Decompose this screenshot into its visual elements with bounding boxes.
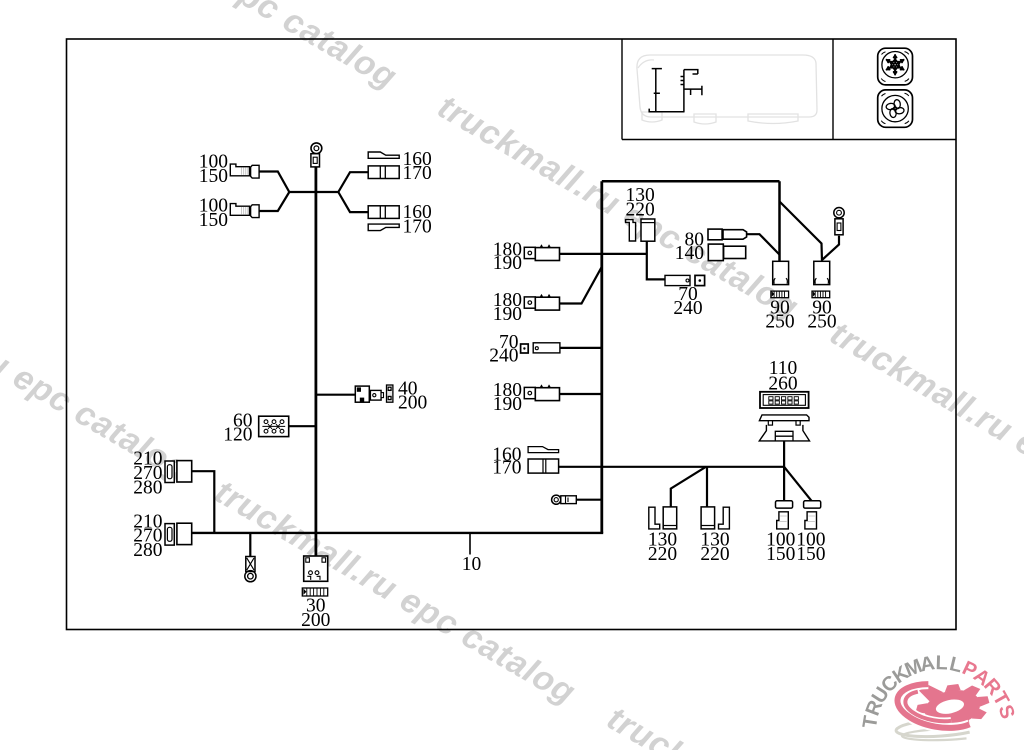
svg-text:150: 150 [199, 210, 228, 231]
svg-text:150: 150 [796, 544, 825, 565]
svg-text:240: 240 [489, 346, 518, 367]
svg-text:220: 220 [626, 199, 655, 220]
svg-text:120: 120 [223, 425, 252, 446]
svg-text:L: L [935, 652, 948, 674]
svg-text:260: 260 [768, 373, 797, 394]
svg-text:170: 170 [403, 216, 432, 237]
svg-text:190: 190 [493, 253, 522, 274]
svg-text:150: 150 [766, 544, 795, 565]
svg-text:280: 280 [133, 540, 162, 561]
svg-text:250: 250 [765, 312, 794, 333]
svg-text:280: 280 [133, 477, 162, 498]
svg-text:250: 250 [807, 312, 836, 333]
svg-text:170: 170 [492, 458, 521, 479]
svg-text:150: 150 [199, 166, 228, 187]
svg-text:190: 190 [493, 304, 522, 325]
svg-text:240: 240 [673, 298, 702, 319]
svg-text:140: 140 [675, 243, 704, 264]
svg-text:220: 220 [648, 544, 677, 565]
svg-text:170: 170 [403, 163, 432, 184]
svg-text:200: 200 [398, 392, 427, 413]
svg-text:190: 190 [493, 394, 522, 415]
svg-text:10: 10 [462, 554, 482, 575]
svg-text:200: 200 [301, 610, 330, 631]
svg-text:220: 220 [700, 544, 729, 565]
